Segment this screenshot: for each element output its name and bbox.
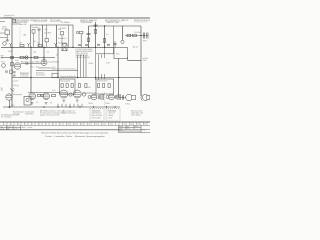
svg-text:LW: LW <box>1 58 4 60</box>
antenna A3 <box>54 43 57 47</box>
wire: box bottom stub <box>127 57 129 61</box>
channel divider dashed <box>104 93 106 107</box>
svg-text:ECH81: ECH81 <box>60 28 66 30</box>
rectifier circle right <box>106 96 109 99</box>
svg-text:Mey: Mey <box>7 129 10 131</box>
IF can divider 2 <box>56 25 58 47</box>
svg-text:7000:5: 7000:5 <box>88 103 93 105</box>
svg-text:4: 4 <box>25 124 26 126</box>
top border rule <box>0 17 150 19</box>
transformer Tr1 hatch <box>101 94 103 100</box>
label right of power box <box>133 46 138 49</box>
wire: dropper x98.5 <box>98 55 100 81</box>
ground V4 <box>62 100 65 102</box>
svg-text:Roehrenvoltmeter: Roehrenvoltmeter <box>62 111 77 114</box>
svg-text:Tag: Tag <box>127 126 130 128</box>
wire: left edge stub b <box>0 32 5 34</box>
small tube V4a <box>69 93 72 96</box>
node dots rail3 <box>30 77 119 78</box>
connector X1 <box>25 56 28 59</box>
label above rail3 <box>60 75 76 78</box>
note text b <box>25 110 35 115</box>
svg-text:Gepr.: Gepr. <box>14 127 18 129</box>
wire: y63.5 link <box>21 63 41 65</box>
tube V4 EL84 <box>60 90 68 98</box>
connector pins above chassis line <box>58 104 82 107</box>
resistor R19 <box>37 94 40 96</box>
wire: left edge stub c <box>0 37 7 39</box>
resistor R5 <box>127 34 131 37</box>
capacitor C3 <box>87 33 91 35</box>
value label bus a <box>19 43 22 45</box>
svg-text:3: 3 <box>18 124 19 126</box>
svg-text:8: 8 <box>53 124 54 126</box>
resistor R11 <box>61 84 63 88</box>
wire: droppers trio <box>77 55 79 78</box>
svg-text:LW 150-300: LW 150-300 <box>92 117 101 119</box>
wire: dropper x141 <box>140 26 142 61</box>
capacitor C1 <box>6 39 9 41</box>
svg-text:gemeinsame Kathodenleitung: gemeinsame Kathodenleitung <box>52 67 76 70</box>
svg-text:19: 19 <box>137 124 139 126</box>
resistor R4 <box>103 39 106 43</box>
wire: L3 top <box>46 25 48 39</box>
right sub table <box>119 125 151 132</box>
svg-text:40 ... 44: 40 ... 44 <box>31 67 38 69</box>
svg-text:1: 1 <box>4 124 5 126</box>
svg-text:2: 2 <box>11 124 12 126</box>
title block tick row line <box>0 124 150 126</box>
wire: dropper x95.5 low <box>95 47 97 80</box>
label antenna <box>20 23 27 26</box>
wire: x58 vertical <box>57 47 59 77</box>
chassis line <box>3 106 120 108</box>
label in can1 row <box>32 26 41 29</box>
tube V2 EM80 <box>14 63 20 69</box>
section header Demodulator <box>80 19 98 24</box>
speaker LS1 <box>126 94 133 101</box>
legend box 1 <box>90 109 104 122</box>
wire: L4 to bus <box>61 35 63 44</box>
ground V5 <box>76 100 79 102</box>
wire: dropper x81 <box>80 34 82 48</box>
svg-text:6,3V ~: 6,3V ~ <box>106 63 111 65</box>
svg-text:schmal/breit: schmal/breit <box>36 74 46 77</box>
node dot rail2 <box>104 25 105 26</box>
resistor R1 <box>87 38 90 42</box>
antenna input coil L1 <box>13 19 16 22</box>
label left margin notes <box>2 27 8 31</box>
sheet number text top-left <box>4 14 15 19</box>
resistor R8 on bus <box>38 44 42 46</box>
table mid faint text <box>22 126 33 129</box>
ground mid1 <box>31 103 34 105</box>
svg-text:Name: Name <box>135 126 139 128</box>
wire: x31 long vertical <box>30 47 32 92</box>
resistor R9a on rail2 <box>11 56 14 58</box>
svg-text:12.5.: 12.5. <box>127 128 131 130</box>
IF can box enclosure (left edge) <box>31 25 74 47</box>
wire: dropper x104.5 <box>104 26 106 47</box>
svg-text:10k log: 10k log <box>13 85 19 87</box>
svg-text:6: 6 <box>39 124 40 126</box>
section header Netzteil <box>122 20 129 22</box>
trimmer cap on bus b <box>13 75 16 76</box>
svg-text:ohne Signal: ohne Signal <box>131 115 141 117</box>
power box label <box>116 53 120 56</box>
wire: y70 long <box>36 69 78 71</box>
svg-text:15: 15 <box>102 124 104 126</box>
IF can divider 1 <box>42 25 44 47</box>
label box A <box>61 80 71 83</box>
tuner box T1 <box>5 30 10 35</box>
svg-text:12.3.: 12.3. <box>1 129 5 131</box>
label under channel right <box>105 103 110 105</box>
capacitor C14 <box>98 95 99 99</box>
svg-text:14: 14 <box>95 124 97 126</box>
svg-text:10k: 10k <box>33 41 36 43</box>
power box rect <box>114 48 128 59</box>
tube V7 <box>109 94 115 100</box>
rectifier circle left <box>88 96 91 99</box>
wire: L3 to bus <box>46 42 48 47</box>
resistor R15 on dropper <box>85 84 87 88</box>
svg-text:5k: 5k <box>47 52 49 54</box>
label below rail2 <box>15 60 18 62</box>
resistor R21 <box>10 70 13 74</box>
label left edge mid <box>1 56 4 60</box>
svg-text:Hinweis: Farben-Kennzeichnung,: Hinweis: Farben-Kennzeichnung, Roehrenfa… <box>41 131 109 134</box>
node dots rail2 <box>11 57 44 58</box>
label right margin psu <box>143 58 149 62</box>
svg-text:13: 13 <box>88 124 90 126</box>
switch box S1 <box>52 73 58 77</box>
wire: psu feed vertical <box>114 41 116 48</box>
transformer Tr2 hatch <box>118 94 120 100</box>
resistor R2 <box>80 31 83 34</box>
svg-text:.: . <box>11 14 12 18</box>
wire: dropper x122.5 <box>122 26 124 40</box>
capacitor C4 <box>94 24 98 26</box>
potentiometer P1 <box>11 63 14 66</box>
label right of V3 <box>49 60 60 63</box>
label above output chain <box>135 32 142 34</box>
node junction dot <box>9 106 11 108</box>
title block ticks <box>4 122 148 125</box>
left sub table text <box>1 126 19 130</box>
svg-text:Ferrit: Ferrit <box>1 60 6 63</box>
resistor R9 on rail2 <box>20 56 24 58</box>
svg-text:Ratio-Detektor: Ratio-Detektor <box>81 21 92 24</box>
label below output caps <box>143 40 148 42</box>
wire: x141 into speaker <box>140 78 142 95</box>
IF transformer box with X <box>62 44 67 51</box>
ground mid2 <box>45 103 48 105</box>
label under channel left <box>88 103 93 105</box>
svg-text:Nr. 97a/50001: Nr. 97a/50001 <box>1 116 12 119</box>
note text right <box>131 109 143 116</box>
caption line 2 <box>45 135 105 138</box>
svg-text:50+50uF: 50+50uF <box>135 32 142 34</box>
svg-text:25: 25 <box>56 54 58 56</box>
label long wire <box>52 67 76 70</box>
wire: V8 cathode drop <box>9 100 11 107</box>
node dots on bus <box>11 47 105 48</box>
wire: C2 to bus <box>38 30 40 47</box>
label AM <box>24 34 27 37</box>
capacitor C12 <box>5 71 8 72</box>
capacitor C2 in can <box>38 28 41 30</box>
speaker LS2 <box>141 95 143 101</box>
svg-text:18: 18 <box>130 124 132 126</box>
speaker coupling cap C9 <box>122 95 123 100</box>
svg-text:Lautst.: Lautst. <box>13 79 19 82</box>
label rows mid low <box>36 72 46 77</box>
svg-text:0,05: 0,05 <box>15 60 18 62</box>
wire: x141 vertical to speaker <box>140 61 142 97</box>
resistor R12 <box>66 84 68 88</box>
svg-text:Ratiodetektor: Ratiodetektor <box>49 60 60 63</box>
note text printed <box>1 114 19 119</box>
label in can3 row <box>58 37 68 45</box>
label below bus left <box>8 51 13 53</box>
tube V9 <box>29 93 36 100</box>
svg-text:7: 7 <box>46 124 47 126</box>
value label in can2 <box>45 29 48 31</box>
wire: left edge stub a <box>0 21 5 23</box>
node dots chassis <box>43 106 115 107</box>
wire: dropper x101.5 <box>101 55 103 59</box>
svg-text:Grundig 97a: Grundig 97a <box>4 14 15 17</box>
value label mid c <box>56 54 58 56</box>
svg-text:Bandfilter II: Bandfilter II <box>58 37 67 40</box>
label mid droppers <box>87 87 91 89</box>
small caps row above bus <box>97 44 110 45</box>
wire: mid link y93 <box>82 92 96 94</box>
note text c block <box>40 109 65 116</box>
tube V5 EL84 <box>73 90 81 98</box>
right sub table text <box>119 125 146 132</box>
rail y92.5 <box>28 92 60 94</box>
svg-text:10,7 MHz: 10,7 MHz <box>44 32 51 34</box>
label in can2 row <box>44 32 51 34</box>
label klang <box>13 94 23 96</box>
svg-text:16: 16 <box>109 124 111 126</box>
svg-text:0,1uF 250V: 0,1uF 250V <box>58 43 68 45</box>
antenna A2 <box>27 43 30 47</box>
small tube V5a <box>82 93 85 96</box>
svg-text:Netz: Netz <box>116 53 120 56</box>
ferrite rod antenna label <box>1 60 6 63</box>
resistor R3 <box>94 30 97 34</box>
node dot rail <box>95 25 96 26</box>
svg-text:240V~: 240V~ <box>8 51 13 53</box>
phono symbol <box>26 98 29 101</box>
output box B <box>96 79 114 94</box>
svg-text:AZ 41: AZ 41 <box>133 46 138 49</box>
svg-text:5k6: 5k6 <box>45 29 48 31</box>
legend text block <box>20 71 30 78</box>
coupling cap C5 <box>121 40 124 43</box>
svg-text:0,1: 0,1 <box>106 34 109 36</box>
wire from tuner <box>6 35 8 41</box>
svg-text:EABC80 Triode: EABC80 Triode <box>107 21 119 24</box>
section header UKW-Teil <box>14 19 34 22</box>
coil L3 in can2 <box>45 39 48 42</box>
capacitor C11 <box>85 45 88 46</box>
label bias <box>88 63 94 65</box>
note text a <box>13 111 24 115</box>
caption line 1 <box>41 131 109 134</box>
volume pot P2 <box>10 89 14 92</box>
capacitor C6 <box>143 33 145 39</box>
capacitor C13 <box>113 44 116 45</box>
section header NF-Vorstufe <box>105 20 124 24</box>
capacitor C7 <box>146 33 148 39</box>
tube V10 <box>43 93 50 100</box>
resistor R18 <box>108 84 110 88</box>
resistor R13 <box>71 84 73 88</box>
label heater <box>106 63 111 65</box>
diode chain D1 <box>76 31 78 33</box>
svg-text:5 Ohm: 5 Ohm <box>125 103 131 105</box>
svg-text:NETZT.: NETZT. <box>122 20 129 22</box>
value label mid b <box>47 52 49 54</box>
second rail y57.5 <box>1 57 55 59</box>
svg-text:17: 17 <box>123 124 125 126</box>
svg-text:UKW M K L: UKW M K L <box>25 113 34 115</box>
resistor R19b <box>41 94 44 96</box>
wire: stub to x118.7 <box>96 53 114 55</box>
svg-text:Tag: Tag <box>1 126 4 128</box>
resistor R7 on bus <box>20 44 24 46</box>
coil L2 in can <box>32 30 35 34</box>
value label bus b <box>37 43 40 45</box>
svg-text:9: 9 <box>60 124 61 126</box>
section header Mischstufe <box>33 20 48 22</box>
svg-text:0,01: 0,01 <box>33 52 36 54</box>
label row2 top <box>15 22 27 24</box>
resistor R17 <box>103 84 105 88</box>
label above tuning <box>21 60 39 63</box>
label below R19 <box>36 90 55 105</box>
label left of V8 <box>1 87 4 92</box>
trimmer cap on bus a <box>13 72 16 73</box>
svg-text:20: 20 <box>144 124 146 126</box>
section header Endstufe <box>134 20 151 22</box>
coil L4 in can3 <box>61 32 64 35</box>
note text d block <box>62 109 77 114</box>
legend box 2 dashed <box>106 109 120 122</box>
svg-text:Punkte ... Loetstellen, Zahlen: Punkte ... Loetstellen, Zahlen ... Messw… <box>45 135 105 138</box>
wire: can3 inner drop <box>68 25 70 47</box>
wire: dropper x113.5 <box>113 26 115 54</box>
svg-text:5: 5 <box>32 124 33 126</box>
text row underlined mid <box>38 67 56 69</box>
wire: dropper x104.5 low <box>104 47 106 58</box>
svg-text:ZF 468kHz: ZF 468kHz <box>61 22 70 24</box>
svg-text:11: 11 <box>74 124 76 126</box>
wire: left vertical bus <box>11 18 13 107</box>
rail y77.5 <box>12 77 141 79</box>
svg-text:Name: Name <box>7 126 11 128</box>
svg-text:3 Jazz: 3 Jazz <box>108 117 113 119</box>
wire: power box to dropper <box>128 60 142 62</box>
tube V8 <box>6 94 12 100</box>
left sub table <box>0 127 21 129</box>
wire: antenna lead <box>12 23 20 25</box>
value label in can1 <box>33 41 36 43</box>
svg-text:Gegentakt-Endstufe: Gegentakt-Endstufe <box>60 75 76 78</box>
wire: dropper x88.5 <box>88 26 90 47</box>
title block bottom line <box>0 129 119 131</box>
label P2 <box>13 79 19 87</box>
svg-text:2k: 2k <box>36 102 38 104</box>
svg-text:Klangregler: Klangregler <box>13 94 23 96</box>
resistor R10 on rail2 <box>34 56 38 58</box>
resistor R14 on dropper <box>78 84 80 88</box>
title block top line <box>0 121 150 123</box>
svg-text:Abstimmanzeige EM80: Abstimmanzeige EM80 <box>21 60 39 63</box>
svg-text:10: 10 <box>67 124 69 126</box>
preamp box A <box>60 79 76 94</box>
wire: dropper x95.5 <box>95 22 97 47</box>
phono box <box>24 97 31 106</box>
wire: x118.7 vertical <box>118 59 120 98</box>
label at cathode <box>11 105 15 107</box>
svg-text:Dipol 300 Ohm: Dipol 300 Ohm <box>15 22 27 24</box>
value label mid a <box>33 52 36 54</box>
section header ZF-Verstaerker <box>50 20 70 24</box>
coil L5 circle <box>2 64 6 68</box>
tube V3 <box>41 60 47 66</box>
tube V6 <box>91 94 97 100</box>
wire: x44 vertical <box>43 47 45 64</box>
svg-text:gegen Chassis bei 220V: gegen Chassis bei 220V <box>40 115 60 117</box>
svg-text:0,05: 0,05 <box>52 90 55 92</box>
capacitor C15 <box>115 95 116 99</box>
wire: L2 to bus <box>33 33 35 47</box>
main bus rail y47 <box>1 46 114 48</box>
tick row numbers <box>4 124 146 126</box>
valve data table text <box>76 49 93 59</box>
wire: rail y26 demod to output <box>89 25 142 27</box>
resistor R6 <box>133 34 137 37</box>
wire: between output caps <box>125 35 148 37</box>
svg-text:0,1: 0,1 <box>50 102 52 104</box>
resistor R16 <box>98 84 100 88</box>
wire: speaker feed left <box>119 97 126 99</box>
resistor R20 <box>52 94 56 96</box>
antenna A1 <box>9 43 12 47</box>
label LS1 <box>125 103 131 105</box>
value label in can3 <box>58 29 61 31</box>
svg-text:12: 12 <box>81 124 83 126</box>
capacitor C8 <box>25 62 27 65</box>
tube V1 ECC85 <box>3 42 7 46</box>
label box B <box>97 80 108 83</box>
capacitor C10 <box>78 45 81 46</box>
svg-text:0,025: 0,025 <box>87 87 91 89</box>
node dot output chain <box>140 35 141 36</box>
svg-text:Bandfilter I: Bandfilter I <box>32 26 41 29</box>
wire: tuning gang dashed <box>19 27 21 44</box>
wire: dropper x86 <box>85 55 87 78</box>
value label 40-44 <box>31 67 38 69</box>
svg-text:7000:5: 7000:5 <box>105 103 110 105</box>
svg-text:+250V: +250V <box>88 63 94 65</box>
label above mixer <box>60 28 66 30</box>
